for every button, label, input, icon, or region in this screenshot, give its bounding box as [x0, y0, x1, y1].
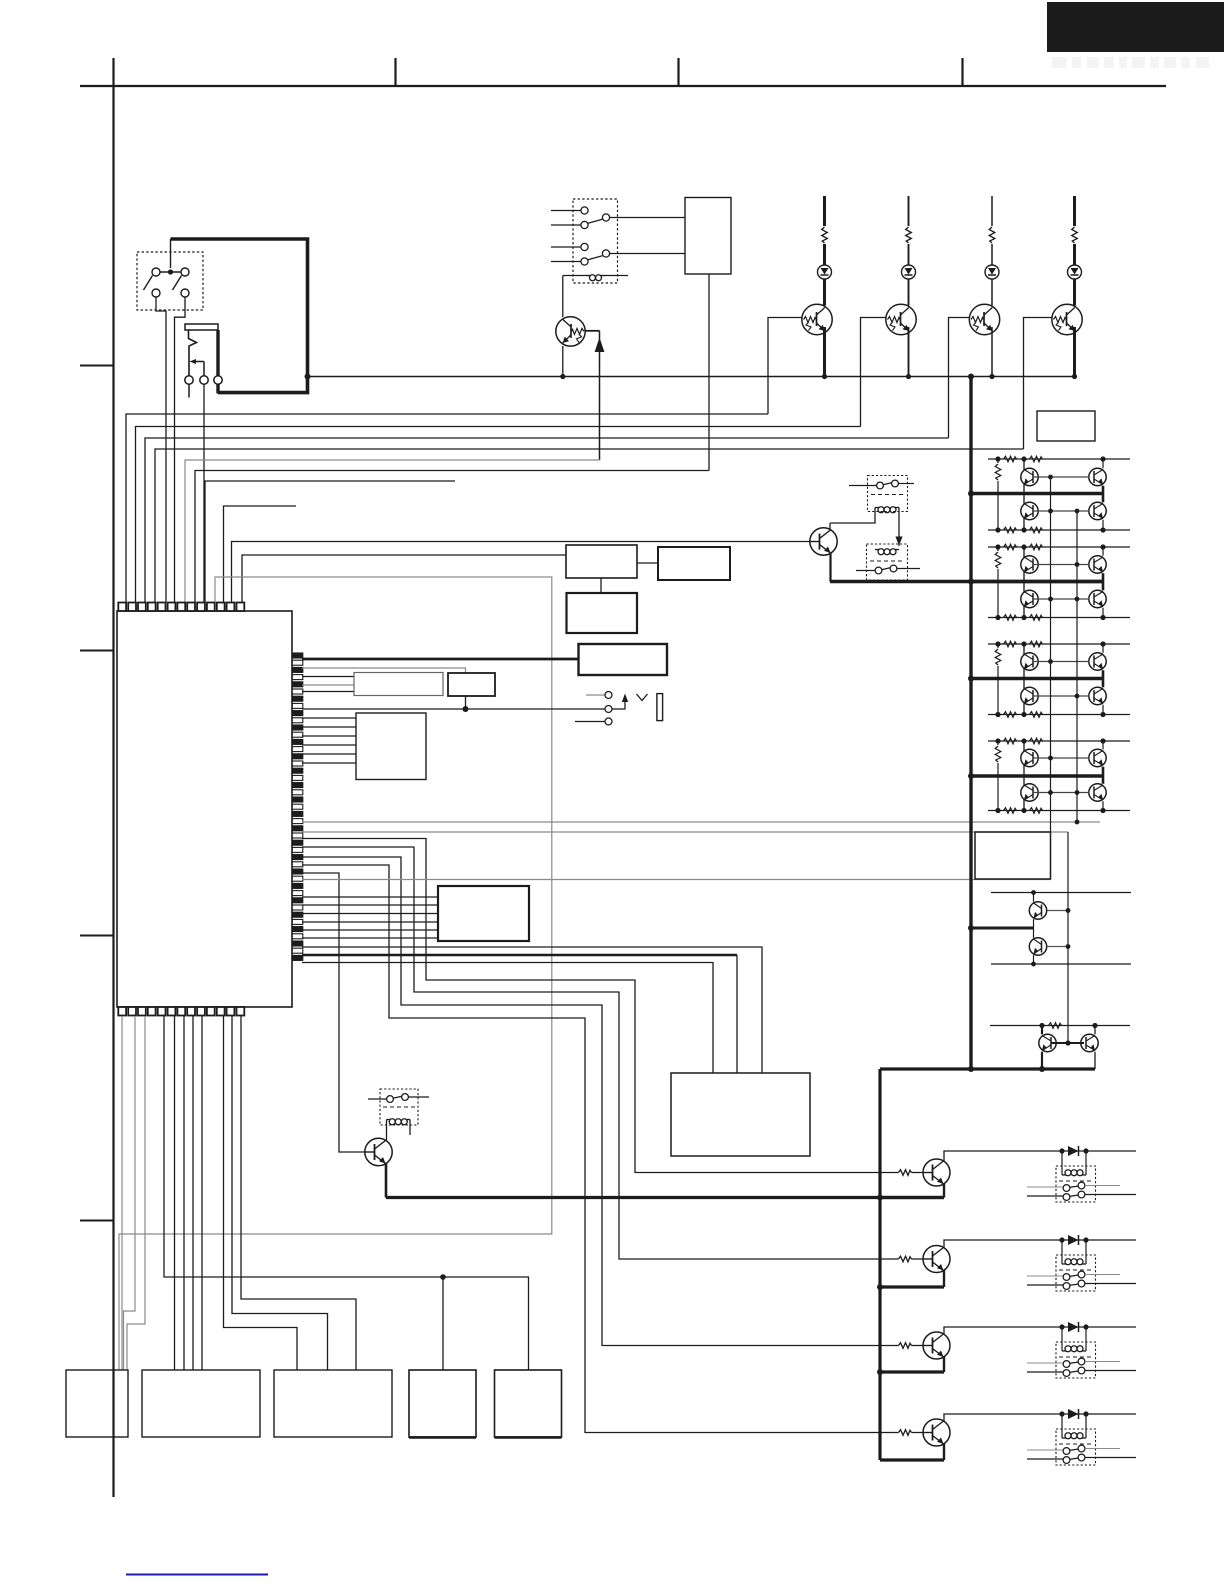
jack J1 terminal 3	[214, 376, 222, 384]
power rail bottom (thick)	[880, 1067, 1095, 1070]
resistor Re4 (vertical)	[997, 741, 999, 745]
wire RY1 in a1	[551, 210, 581, 212]
wire Q31 collector	[944, 1414, 1136, 1421]
wire M3 drop	[442, 1277, 444, 1370]
relay RY3 contacts	[875, 567, 882, 574]
wire U1 net V3 (gray)	[302, 879, 1051, 881]
wire Q27 emitter	[1094, 1052, 1096, 1069]
transistor Q29	[923, 1246, 950, 1273]
wire Q24 emitter	[1033, 919, 1035, 928]
node D4 a	[1059, 1324, 1064, 1329]
wire F1 down	[465, 696, 467, 709]
relay RY7 contact row 2	[1063, 1370, 1070, 1377]
resistor Rc4	[1004, 808, 1017, 814]
wire U1 net V1 (gray)	[302, 821, 1100, 823]
wire RY1 coil to rail	[562, 276, 564, 318]
resistor Re2 (vertical)	[997, 547, 999, 551]
wire bus LED1	[126, 414, 768, 602]
relay RY4 coil	[387, 1119, 391, 1121]
block D1	[579, 644, 668, 675]
wire array left column g4	[1023, 741, 1025, 811]
transistor Q28	[923, 1159, 950, 1186]
resistor Rd2	[1030, 615, 1043, 621]
power rail mid (thick)	[830, 580, 1103, 583]
block M4	[495, 1370, 562, 1437]
relay RY1 contact b1	[581, 243, 588, 250]
transistor Q15 (array R2b)	[1089, 590, 1106, 607]
wire array row top g3	[988, 643, 1130, 645]
transistor Q9 (array L1b)	[1021, 502, 1038, 519]
block M0	[66, 1370, 128, 1437]
relay RY1 contact a1	[581, 207, 588, 214]
wire array row top g4	[988, 740, 1130, 742]
wire pair2 row	[990, 1025, 1130, 1027]
node D5 k	[1083, 1411, 1088, 1416]
wire U1 to K2 base	[302, 847, 891, 1259]
page frame horizontal rule	[80, 85, 1166, 87]
relay RY1 common a	[602, 214, 609, 221]
wire RY1 out a	[610, 217, 685, 219]
jack J2 contact stub b	[575, 721, 605, 723]
node trunk2 top	[968, 1066, 974, 1072]
relay RY1 coil	[563, 275, 588, 277]
node trunk-rail	[968, 374, 974, 380]
wire array right column g3	[1102, 644, 1104, 653]
wire U1 to M1 c	[192, 1016, 194, 1370]
transistor Q18 (array R3a)	[1089, 653, 1106, 670]
node rail g3	[968, 676, 974, 682]
transistor Q2	[802, 304, 832, 334]
wire U1 to H1 pin6	[302, 937, 438, 939]
node F1-J2	[463, 706, 469, 712]
wire U1 to H1 pin2	[302, 904, 438, 906]
node Q4 emitter-rail	[989, 374, 994, 379]
node D2 a	[1059, 1148, 1064, 1153]
wire Q3 base	[861, 318, 886, 427]
relay RY4 divider	[383, 1106, 415, 1108]
resistor Rd4	[1030, 808, 1043, 814]
IC U1 body	[117, 611, 292, 1007]
wire Q7 emitter (thick)	[385, 1164, 388, 1198]
IC U1 right pins	[292, 653, 303, 960]
wire U1 to G1 pin6	[302, 762, 356, 764]
jack J1 terminal 1	[185, 376, 193, 384]
block B3	[658, 547, 730, 580]
resistor Ra3	[1004, 641, 1017, 647]
relay RY2 enclosure	[868, 476, 908, 512]
power trunk (thick vertical)	[969, 377, 972, 1070]
node rail g2	[968, 579, 974, 585]
wire Q2 base	[768, 318, 802, 415]
wire U1 to G1 pin4	[302, 744, 356, 746]
relay RY1 enclosure	[573, 199, 618, 283]
wire U1 to G1 pin2	[302, 726, 356, 728]
wire Q6 emitter	[829, 553, 831, 582]
node bus2-V1	[1075, 820, 1080, 825]
wire U1 to H1 pin5	[302, 929, 438, 931]
block A1	[566, 545, 637, 578]
resistor Rk2	[891, 1258, 899, 1260]
resistor R1	[823, 196, 826, 226]
resistor Rb4	[1030, 738, 1043, 744]
wire Q27 collector	[1094, 1026, 1096, 1035]
resistor R3	[991, 196, 993, 226]
resistor Rd1	[1030, 527, 1043, 533]
wire pair row 1	[991, 892, 1131, 894]
wire RY3 out	[897, 568, 920, 570]
wire U1 to E1 c	[302, 691, 354, 693]
wire bus serial (gray)	[119, 577, 552, 1370]
transistor Q27	[1081, 1034, 1098, 1051]
wire U1 to M1 d	[201, 1016, 203, 1370]
wire base link g1a	[1033, 476, 1089, 478]
relay RY2 divider	[871, 494, 904, 496]
power rail pair (thick)	[971, 927, 1034, 930]
transistor Q5	[1052, 304, 1082, 334]
margin dash 4	[80, 1220, 114, 1222]
wire U1 to Q7 base	[302, 873, 365, 1152]
wire array left column g1	[1023, 459, 1025, 530]
node D5 a	[1059, 1411, 1064, 1416]
wire U1 to K1 base	[302, 839, 891, 1173]
wire Q1 out with arrow	[585, 330, 599, 332]
wire U1 pin B2 down (gray)	[124, 1016, 136, 1370]
wire Q25 collector	[1033, 928, 1035, 938]
diode LED1	[818, 265, 832, 279]
node rail g4	[968, 773, 974, 779]
wire RY4 coil left	[386, 1120, 388, 1141]
relay RY6 contact row 2	[1063, 1283, 1070, 1290]
wire base link g2b	[1033, 598, 1089, 600]
wire Q5 base	[1024, 318, 1052, 450]
wire base link g1b	[1033, 510, 1089, 512]
relay RY3 divider	[870, 560, 904, 562]
transistor Q3	[886, 304, 916, 334]
transistor Q25	[1029, 938, 1046, 955]
wire U1 to G1 pin3	[302, 735, 356, 737]
node pair row1	[1031, 890, 1036, 895]
node base bus	[1048, 475, 1053, 480]
resistor Rk3	[891, 1345, 899, 1347]
wire array row top g1	[988, 458, 1130, 460]
wire bus relay drive (gray)	[185, 460, 600, 602]
resistor Rd3	[1030, 712, 1043, 718]
wire RY1 in a2	[551, 224, 581, 226]
wire U1 to F1 (gray)	[302, 668, 466, 673]
power rail g4 (thick)	[971, 774, 1103, 777]
wire Q24 base	[1047, 910, 1068, 912]
relay RY8 divider	[1059, 1443, 1092, 1445]
diode LED4	[1068, 265, 1082, 279]
power rail g1 (thick)	[971, 492, 1103, 495]
power trunk 2 (thick vertical)	[878, 1069, 881, 1460]
wire U1 to BB top b (thick)	[302, 954, 737, 957]
wire Q25 emitter	[1033, 955, 1035, 964]
diode LED2	[902, 265, 916, 279]
transistor Q23 (array R4b)	[1089, 784, 1106, 801]
resistor Rb1	[1030, 456, 1043, 462]
transistor Q12 (array L2a)	[1021, 556, 1038, 573]
relay RY8 contact row 2	[1063, 1457, 1070, 1464]
wire Q28 emitter (thick)	[943, 1184, 945, 1198]
relay RY3 enclosure	[867, 544, 908, 580]
wire switch pole A down	[156, 297, 166, 602]
block F1	[448, 673, 495, 696]
block BB (system control)	[671, 1073, 810, 1156]
wire U1 to H1 pin4	[302, 921, 438, 923]
resistor R2	[908, 196, 910, 226]
node D2 k	[1083, 1148, 1088, 1153]
relay RY6 divider	[1059, 1269, 1092, 1271]
wire array row bottom g1	[988, 529, 1130, 531]
relay RY1 common b	[602, 250, 609, 257]
wire Q26 collector (thick)	[1041, 1026, 1043, 1035]
diode LED3	[985, 265, 999, 279]
wire base link g2a	[1033, 564, 1089, 566]
wire jack sleeve stub (thick)	[216, 330, 219, 376]
margin dash 1	[80, 365, 114, 367]
transistor Q11 (array R1b)	[1089, 502, 1106, 519]
jack J1 body bar	[185, 324, 218, 330]
wire Q26 emitter (thick)	[1041, 1052, 1043, 1069]
wire base link g4a	[1033, 757, 1089, 759]
power rail g2 (thick)	[971, 580, 1103, 583]
transistor Q30	[923, 1332, 950, 1359]
block M1	[142, 1370, 260, 1437]
node rail g1	[968, 491, 974, 497]
power return rail (thick)	[386, 1196, 944, 1199]
wire base link g3a	[1033, 661, 1089, 663]
relay RY4 enclosure	[380, 1089, 418, 1125]
wire U1 to M1 a	[174, 1016, 176, 1370]
wire U1 to BB top c	[302, 963, 713, 1074]
wire array left column g3	[1023, 644, 1025, 715]
wire RY1 in b2	[551, 261, 581, 263]
wire U1 to D1 (thick)	[302, 658, 579, 661]
wire base bus 1 (vertical)	[1050, 477, 1052, 832]
wire array right column g1	[1102, 459, 1104, 468]
wire Q24 collector	[1033, 893, 1035, 902]
node Q5 emitter-rail	[1072, 374, 1077, 379]
block B2 (top right)	[1037, 411, 1095, 441]
diode D3	[1068, 1235, 1079, 1245]
node D3 k	[1083, 1237, 1088, 1242]
node pair row2	[1031, 962, 1036, 967]
page frame vertical rule	[112, 86, 114, 1497]
node coil-rail	[560, 374, 565, 379]
resistor Rf	[1049, 1023, 1062, 1029]
title block (black)	[1047, 2, 1224, 52]
wire bus stub 1	[205, 481, 455, 602]
relay RY7 contact row 1	[1063, 1361, 1070, 1368]
resistor Ra4	[1004, 738, 1017, 744]
relay RY6 coil	[1062, 1263, 1066, 1265]
relay RY8 contact row 1	[1063, 1448, 1070, 1455]
wire U1 to M2 b	[232, 1016, 328, 1370]
wire Q25 base	[1047, 946, 1068, 948]
wire RY4 out	[408, 1096, 429, 1098]
wire bus LED3	[145, 438, 949, 602]
block E1	[354, 673, 443, 696]
relay RY3 coil	[875, 549, 879, 551]
transistor Q19 (array R3b)	[1089, 687, 1106, 704]
transistor Q10 (array R1a)	[1089, 468, 1106, 485]
wire A1-B3	[637, 562, 658, 564]
transistor Q22 (array R4a)	[1089, 749, 1106, 766]
relay RY2 coil	[875, 507, 879, 509]
wire Q29 emitter (thick)	[943, 1271, 945, 1288]
wire Q30 collector	[944, 1327, 1136, 1334]
node D3 a	[1059, 1237, 1064, 1242]
wire array row bottom g4	[988, 810, 1130, 812]
resistor Ra2	[1004, 544, 1017, 550]
jack J2 contact stub a	[586, 694, 605, 696]
jack J2 terminal 3	[605, 718, 612, 725]
wire bus LED2	[136, 427, 861, 603]
frame tick 3	[677, 58, 679, 86]
wire RY3 in	[856, 570, 875, 572]
jack J2 terminal 1	[605, 692, 612, 699]
resistor Rc1	[1004, 527, 1017, 533]
relay RY5 coil	[1062, 1174, 1066, 1176]
wire U1 net V2 (gray)	[302, 831, 1068, 833]
wire AC rail	[308, 376, 1075, 378]
wire Q4 emitter	[991, 327, 993, 377]
transistor Q17 (array L3b)	[1021, 687, 1038, 704]
relay RY5 divider	[1059, 1180, 1092, 1182]
faint caption	[1052, 57, 1209, 68]
relay RY1 contact a2	[581, 221, 588, 228]
power rail g3 (thick)	[971, 677, 1103, 680]
transistor Q8 (array L1a)	[1021, 468, 1038, 485]
jack J2 body bar	[657, 694, 663, 721]
wire U1 to M2 c	[241, 1016, 356, 1370]
wire Q3 emitter	[908, 327, 910, 377]
wire Q29 collector	[944, 1240, 1136, 1248]
wire U1 to BB top a	[302, 947, 762, 1073]
wire array right column g2	[1102, 547, 1104, 556]
margin dash 2	[80, 650, 114, 652]
wire U1 to K3 base	[302, 857, 891, 1346]
node Q3 emitter-rail	[906, 374, 911, 379]
wire array left column g2	[1023, 547, 1025, 618]
footer blue rule	[126, 1574, 268, 1576]
wire U1 to K4 base	[302, 865, 891, 1433]
wire Q6 collector	[829, 523, 831, 529]
wire RY4 in	[368, 1098, 387, 1100]
wire U1 to G1 pin5	[302, 753, 356, 755]
wire array row bottom g3	[988, 714, 1130, 716]
diode D2	[1068, 1146, 1079, 1156]
node AC rail junction	[305, 374, 311, 380]
wire U1 pin B3 down (gray)	[127, 1016, 145, 1370]
transistor Q7	[365, 1138, 392, 1165]
wire base bus 2 (vertical)	[1076, 511, 1078, 822]
wire RY1 in b1	[551, 246, 581, 248]
wire RY2 out	[898, 483, 914, 485]
relay RY7 divider	[1059, 1356, 1092, 1358]
node switch common	[168, 269, 173, 274]
frame tick left	[112, 58, 114, 86]
transistor Q14 (array R2a)	[1089, 556, 1106, 573]
wire U1 to jack J2	[302, 708, 605, 710]
wire coil link with arrow	[898, 508, 900, 547]
IC U1 top pins	[118, 603, 244, 612]
relay RY7 coil	[1062, 1350, 1066, 1352]
resistor Rc3	[1004, 712, 1017, 718]
wire base link g3b	[1033, 695, 1089, 697]
wire U1 to E1 a	[302, 676, 354, 678]
wire J1 t2 to IC	[203, 384, 205, 602]
wire RY2 in	[849, 485, 877, 487]
relay RY5 contact row 2	[1063, 1194, 1070, 1201]
wire bus LED4	[155, 449, 1024, 602]
wire bus block A	[242, 555, 566, 602]
resistor R4	[1073, 196, 1076, 226]
node trunk2 returns	[877, 1195, 883, 1201]
wire switch pole B down	[175, 297, 186, 602]
relay RY7 enclosure	[1056, 1342, 1096, 1378]
block M2	[274, 1370, 392, 1437]
wire bus Q6 base	[232, 542, 811, 603]
wire RY1 out b	[610, 253, 685, 255]
block C1	[567, 593, 638, 633]
jack J1 tip contact	[189, 330, 197, 376]
resistor Rc2	[1004, 615, 1017, 621]
node M3 tap	[440, 1274, 446, 1280]
node Q2 emitter-rail	[822, 374, 827, 379]
wire A1 down	[600, 578, 602, 593]
resistor Rb3	[1030, 641, 1043, 647]
transistor Q13 (array L2b)	[1021, 590, 1038, 607]
relay RY1 contact b2	[581, 258, 588, 265]
jack J2 plug arrow	[624, 702, 626, 710]
wire array right column g4	[1102, 741, 1104, 749]
jack J2 spring contact	[637, 694, 648, 701]
transistor Q1 (digital)	[556, 317, 585, 346]
transistor Q24	[1029, 902, 1046, 919]
frame tick 2	[394, 58, 396, 86]
wire AC loop (thick)	[171, 239, 308, 393]
block B1	[685, 198, 731, 275]
transistor Q4	[969, 304, 999, 334]
wire B1 down	[708, 274, 710, 471]
switch S1 enclosure	[137, 252, 203, 310]
node pair2 base	[1065, 1040, 1070, 1045]
wire Q5 emitter	[1073, 327, 1076, 377]
diode D5	[1068, 1409, 1079, 1419]
wire Q31 emitter (thick)	[943, 1444, 945, 1460]
block G1	[356, 713, 426, 780]
wire bus B1	[195, 471, 709, 603]
relay RY2 contacts	[877, 482, 884, 489]
wire Q4 base	[949, 318, 970, 439]
switch S1 contacts	[152, 268, 160, 276]
resistor Rk4	[891, 1432, 899, 1434]
transistor Q16 (array L3a)	[1021, 653, 1038, 670]
transistor Q20 (array L4a)	[1021, 749, 1038, 766]
transistor Q21 (array L4b)	[1021, 784, 1038, 801]
wire RY4 coil right stub	[409, 1120, 411, 1136]
transistor Q31	[923, 1419, 950, 1446]
wire RY2 coil left	[830, 508, 875, 524]
relay RY8 coil	[1062, 1437, 1066, 1439]
relay RY6 contact row 1	[1063, 1274, 1070, 1281]
node trunk-pair	[968, 925, 974, 931]
relay RY5 enclosure	[1056, 1166, 1096, 1202]
wire U1 to H1 pin1	[302, 896, 438, 898]
wire Q28 return (thick)	[880, 1196, 944, 1199]
